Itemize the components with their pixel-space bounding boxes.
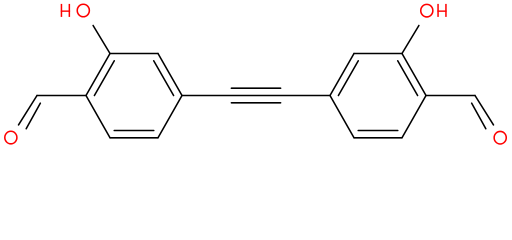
label H of right hydroxyl OH — [437, 4, 446, 17]
wire: left ring edge C1-C2 — [86, 54, 110, 96]
label H of left hydroxyl HO — [61, 4, 70, 17]
label O of right aldehyde — [494, 131, 506, 144]
label O of right hydroxyl OH — [421, 4, 433, 17]
wire: bond D2 to phenol O (right OH) — [402, 26, 419, 54]
wire: right ring edge D1-D5 — [402, 96, 426, 138]
wire: left ring edge C4-C5 — [158, 96, 182, 138]
wire: left ring edge C3-C4 — [158, 54, 182, 96]
label O of left hydroxyl HO — [77, 4, 89, 17]
wire: right ring edge D3-D2 — [354, 53, 402, 55]
label O of left aldehyde — [5, 131, 17, 144]
left ring double bond C5=C6 inner — [114, 130, 154, 132]
wire: bond C2 to phenol O (left OH) — [93, 26, 110, 54]
wire: right ring edge D5-D6 — [354, 137, 402, 139]
right aldehyde C8=O double bond main line — [475, 96, 494, 125]
triple bond upper line — [231, 87, 280, 89]
wire: single-triple-single bond center line C4 to D4 — [182, 95, 330, 97]
wire: left ring edge C6-C1 — [86, 96, 110, 138]
left aldehyde C7=O double bond main line — [19, 96, 38, 125]
wire: right ring edge D6-D4 — [330, 96, 354, 138]
left aldehyde C7=O double bond second line — [26, 103, 40, 129]
left ring double bond C3=C4 inner — [154, 61, 174, 96]
right ring double bond inner (upper-left edge) — [338, 61, 358, 96]
wire: right ring edge D2-D1 — [402, 54, 426, 96]
triple bond lower line — [231, 102, 280, 104]
wire: left ring edge C2-C3 — [110, 53, 158, 55]
right aldehyde C8=O double bond second line — [472, 103, 486, 129]
left ring double bond C1=C2 inner — [94, 61, 114, 96]
wire: bond ring D1 to aldehyde C8 — [426, 95, 475, 97]
wire: left ring edge C5-C6 — [110, 137, 158, 139]
wire: right ring edge D4-D3 — [330, 54, 354, 96]
right ring double bond inner (bottom edge) — [358, 130, 398, 132]
wire: bond ring C1 to aldehyde C7 — [37, 95, 86, 97]
right ring double bond inner (upper-right edge) — [398, 61, 418, 96]
